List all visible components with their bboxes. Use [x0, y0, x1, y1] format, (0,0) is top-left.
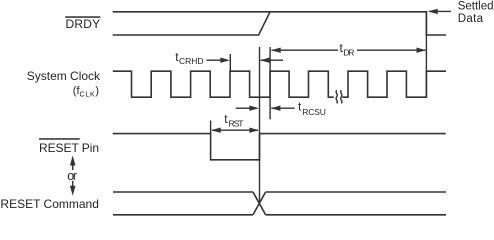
node reference line A (reset release)	[259, 47, 261, 203]
wire DRDY low rail + rising slant	[113, 12, 270, 35]
svg-text:DR: DR	[343, 47, 354, 57]
svg-text:Settled: Settled	[458, 0, 494, 12]
wire settled-data arrow	[429, 10, 451, 12]
svg-text:RCSU: RCSU	[302, 107, 326, 117]
node marker t_RST left	[210, 121, 212, 134]
arrowhead t_DR left	[271, 48, 281, 53]
svg-text:RST: RST	[229, 119, 244, 129]
wire RESET command X crossing	[253, 192, 266, 215]
label DRDY overline	[65, 16, 100, 18]
node reference line B (clock rising edge)	[269, 47, 271, 119]
clock break squiggle	[336, 90, 337, 103]
wire system clock	[113, 71, 446, 97]
svg-text:DRDY: DRDY	[66, 17, 101, 31]
svg-text:(fCLK): (fCLK)	[73, 85, 99, 99]
wire t_DR arrow line right	[357, 49, 426, 51]
arrowhead t_CRHD right-pointing	[220, 58, 230, 63]
arrowhead t_RST left	[211, 128, 221, 133]
arrowhead or down	[70, 186, 76, 196]
wire t_RCSU left-pointing arrow line	[271, 107, 294, 109]
wire RESET command bottom rail	[113, 214, 446, 216]
svg-text:System Clock: System Clock	[27, 69, 101, 83]
wire DRDY high rail + falling edge + low tail	[113, 12, 446, 35]
arrowhead t_RCSU right-pointing	[249, 106, 259, 111]
arrowhead t_RST right	[249, 128, 259, 133]
svg-text:RESET Command: RESET Command	[0, 197, 99, 211]
svg-text:or: or	[67, 169, 77, 183]
wire RESET command top rail	[113, 191, 446, 193]
node marker clock edge t_CRHD	[229, 54, 231, 71]
svg-text:CRHD: CRHD	[179, 56, 204, 66]
wire t_DR arrow line left	[272, 49, 339, 51]
arrowhead t_DR right	[417, 48, 427, 53]
arrowhead t_RCSU left-pointing	[271, 106, 281, 111]
wire RESET pin: high, low pulse, high	[113, 134, 446, 160]
wire t_RST arrow line	[212, 129, 258, 131]
arrowhead or up	[70, 156, 76, 166]
svg-text:RESET Pin: RESET Pin	[39, 141, 99, 155]
label RESET Pin overline	[39, 138, 80, 140]
wire t_CRHD left-pointing arrow line	[261, 59, 284, 61]
arrowhead t_CRHD left-pointing	[260, 58, 270, 63]
wire or up-arrow shaft	[72, 164, 74, 170]
wire t_CRHD right-pointing arrow line	[207, 59, 221, 61]
node marker DRDY fall / clock edge	[425, 12, 427, 97]
svg-text:Data: Data	[458, 13, 484, 25]
wire t_RCSU right-pointing arrow line	[236, 107, 250, 109]
arrowhead settled data	[428, 9, 438, 14]
wire or down-arrow shaft	[72, 181, 74, 187]
